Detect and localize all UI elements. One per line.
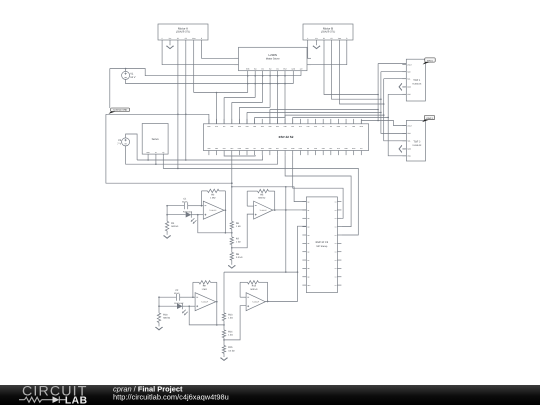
wire OA4 plus input to divider node2 [223,306,246,341]
wire ESP32 top rail y112.4 to bundle [278,112,382,124]
resistor R4 (500 k&#937;) [165,205,178,234]
wire L298N pin3 column [262,76,264,103]
ground (TOF 2 GND pin) [399,145,405,153]
wire L298N pin8 12V column [300,75,302,77]
wire servo pin1 stub [147,157,149,160]
capacitor C2 (50 nF) [159,289,195,301]
wire OA3 plus feedback from node1 [188,305,217,325]
wire rail y160 servo/ESP32 [137,155,263,161]
wire OA1 output to divider node1 [224,210,233,233]
footer bar [0,385,540,405]
sensor U4 (TOF 2 VL53L0X) [402,120,425,161]
wire TOF1 VOUT rail [378,63,406,65]
wire L298N pin5 column [277,76,279,113]
photodiode PD1 (PD50-DKC) [167,210,203,224]
resistor R9 (1 M&#937;) feedback [192,281,218,303]
resistor R5 (500 k&#937;) feedback [247,189,275,211]
op-amp OA4 (TL081CP) [246,293,265,311]
resistor R10 (500 k&#937;) [157,296,170,325]
wire V1 left drop to Common GND tag [109,69,111,109]
wire servo pin2 drop [155,157,157,165]
wire staircase rail 4 [239,107,270,123]
wire Motor B pin3 to right bundle [324,44,379,95]
wire ESP32 pin rail y176 to C3 [285,155,351,227]
resistor R13 (1 k&#937;) [222,272,233,330]
wire staircase rail 1 [194,92,248,124]
wire Motor B pin5 to right bundle [340,44,385,105]
wire V1 minus to GND rail y83.6 [126,79,294,84]
wire staircase rail 5 [247,112,278,123]
wire bundle vertical VCC net [388,94,406,156]
ground (R4) [163,234,171,239]
svg-text:http://circuitlab.com/c4j6xaqw: http://circuitlab.com/c4j6xaqw4t98u [113,393,229,402]
ground (Motor A pin2) [166,44,174,49]
wire OA3 output to divider node1 [216,302,225,326]
voltage source V1 (12 V) [122,71,136,79]
wire Motor B pin4 to right bundle [332,44,382,100]
wire OA4 output up to U5 pin4 [265,226,306,302]
wire V2 minus rail y164.2 [126,146,278,165]
wire rail y186.8 to U5 pin1 [232,186,307,202]
wire OA2 output drop x285.8 [285,187,287,273]
wire V2 plus to servo pin1 (U route) [126,134,138,160]
sensor U3 (TOF 1 VL53L0X) [402,59,425,101]
capacitor C1 (50 nF) [167,197,203,209]
wire bundle vertical SDA net [381,72,407,134]
wire Motor A pin4 to rail y160 [185,44,187,161]
wire TOF1 SDA [381,71,406,73]
resistor R6 (1 k&#937;) [230,221,241,237]
node tag GPIO1 (TOF 1) [423,58,436,65]
wire VOUT net vertical + ESP32 pin [361,64,406,126]
wire OA2 output to U5 pin2 [273,209,307,211]
IC U1 (L298N motor driver) [235,47,312,75]
voltage source V2 (7 V) [117,138,129,146]
ground (R10) [155,325,163,330]
wire staircase rail 3 [232,102,263,123]
ground (Motor B pin2) [313,44,321,49]
resistor R12 (500 k&#937;) feedback [240,281,268,303]
wire Motor A pin6 to L298N left pin y58.3 [202,44,235,58]
wire ESP32 top rail y115.1 to bundle [285,114,384,124]
wire L298N pin1 column [247,76,249,93]
resistor R14 (1 k&#937;) [222,330,233,346]
resistor R2 (1 M&#937;) feedback [201,189,227,211]
wire staircase rail 2 [224,98,255,124]
svg-text:LAB: LAB [65,396,88,405]
wire Common GND rail y114.3 [106,114,209,124]
logo resistor-diode doodle [19,396,66,403]
node tag GPIO2 (TOF 2) [422,116,435,123]
wire Motor B pin6 to L298N right pin y64.7 [311,44,347,65]
wire ESP32 top rail y117.4 to bundle [293,117,389,124]
wire L298N pin2 column [254,76,256,98]
wire ESP32 pin rail y188.2 to C3 [293,155,343,218]
resistor R15 (3.3 k&#937;) [222,346,235,356]
wire Motor A pin5 to staircase rail1 [193,44,195,93]
wire L298N pin4 column [269,76,271,108]
wire chain2 top rail y272.1 [224,271,298,273]
photodiode PD2 (PD50-DKC) [159,302,195,316]
wire staircase rail 6 [255,117,285,123]
wire rail y156 spur [224,154,255,157]
resistor R7 (1 k&#937;) [230,237,241,253]
servo module SV1 [142,124,168,157]
IC U5 (ESP-32 C3 stamp) [302,197,341,293]
ground (divider chain 2) [220,356,228,361]
wire bundle vertical SCL net [384,79,407,141]
wire Motor B pin1 to L298N right pin y58.3 [307,44,309,58]
motor M2 (Motor B JGA25-371) [303,24,353,44]
op-amp OA1 (TL081CP) [203,201,224,219]
wire OA1 plus feedback from node1 [197,214,226,234]
motor M1 (Motor A JGA25-371) [158,24,208,44]
wire Common GND left L to rail y183.2 [106,114,233,184]
ground (TOF 1 GND pin) [399,83,405,91]
wire L298N pin7 GND column [292,76,294,84]
wire Motor A pin3 to servo signal rail [177,44,179,169]
wire servo pin3 rail y168.4 to U5 [163,157,358,235]
op-amp OA2 (TL081CP) [254,201,273,219]
wire ESP32 top rail y109.5 to bundle [270,109,379,124]
wire OA2 plus input to divider node2 [231,214,254,249]
wire TOF1 VCC [388,93,406,95]
IC U2 (ESP-32 S2 module) [203,119,368,155]
wire V1 plus to 12V rail y75.7 [110,68,301,77]
wire TOF1 SCL [384,78,407,80]
op-amp OA3 (TL081CP) [195,293,216,311]
resistor R8 (3.3 k&#937;) [230,252,243,263]
wire Motor A pin1 to L298N left pin y64.7 [162,44,234,65]
wire L298N pin6 column [284,76,286,118]
ground (divider chain 1) [228,264,236,269]
node tag Common GND [109,108,130,114]
wire ESP32 pin column to chain1 [231,155,233,221]
